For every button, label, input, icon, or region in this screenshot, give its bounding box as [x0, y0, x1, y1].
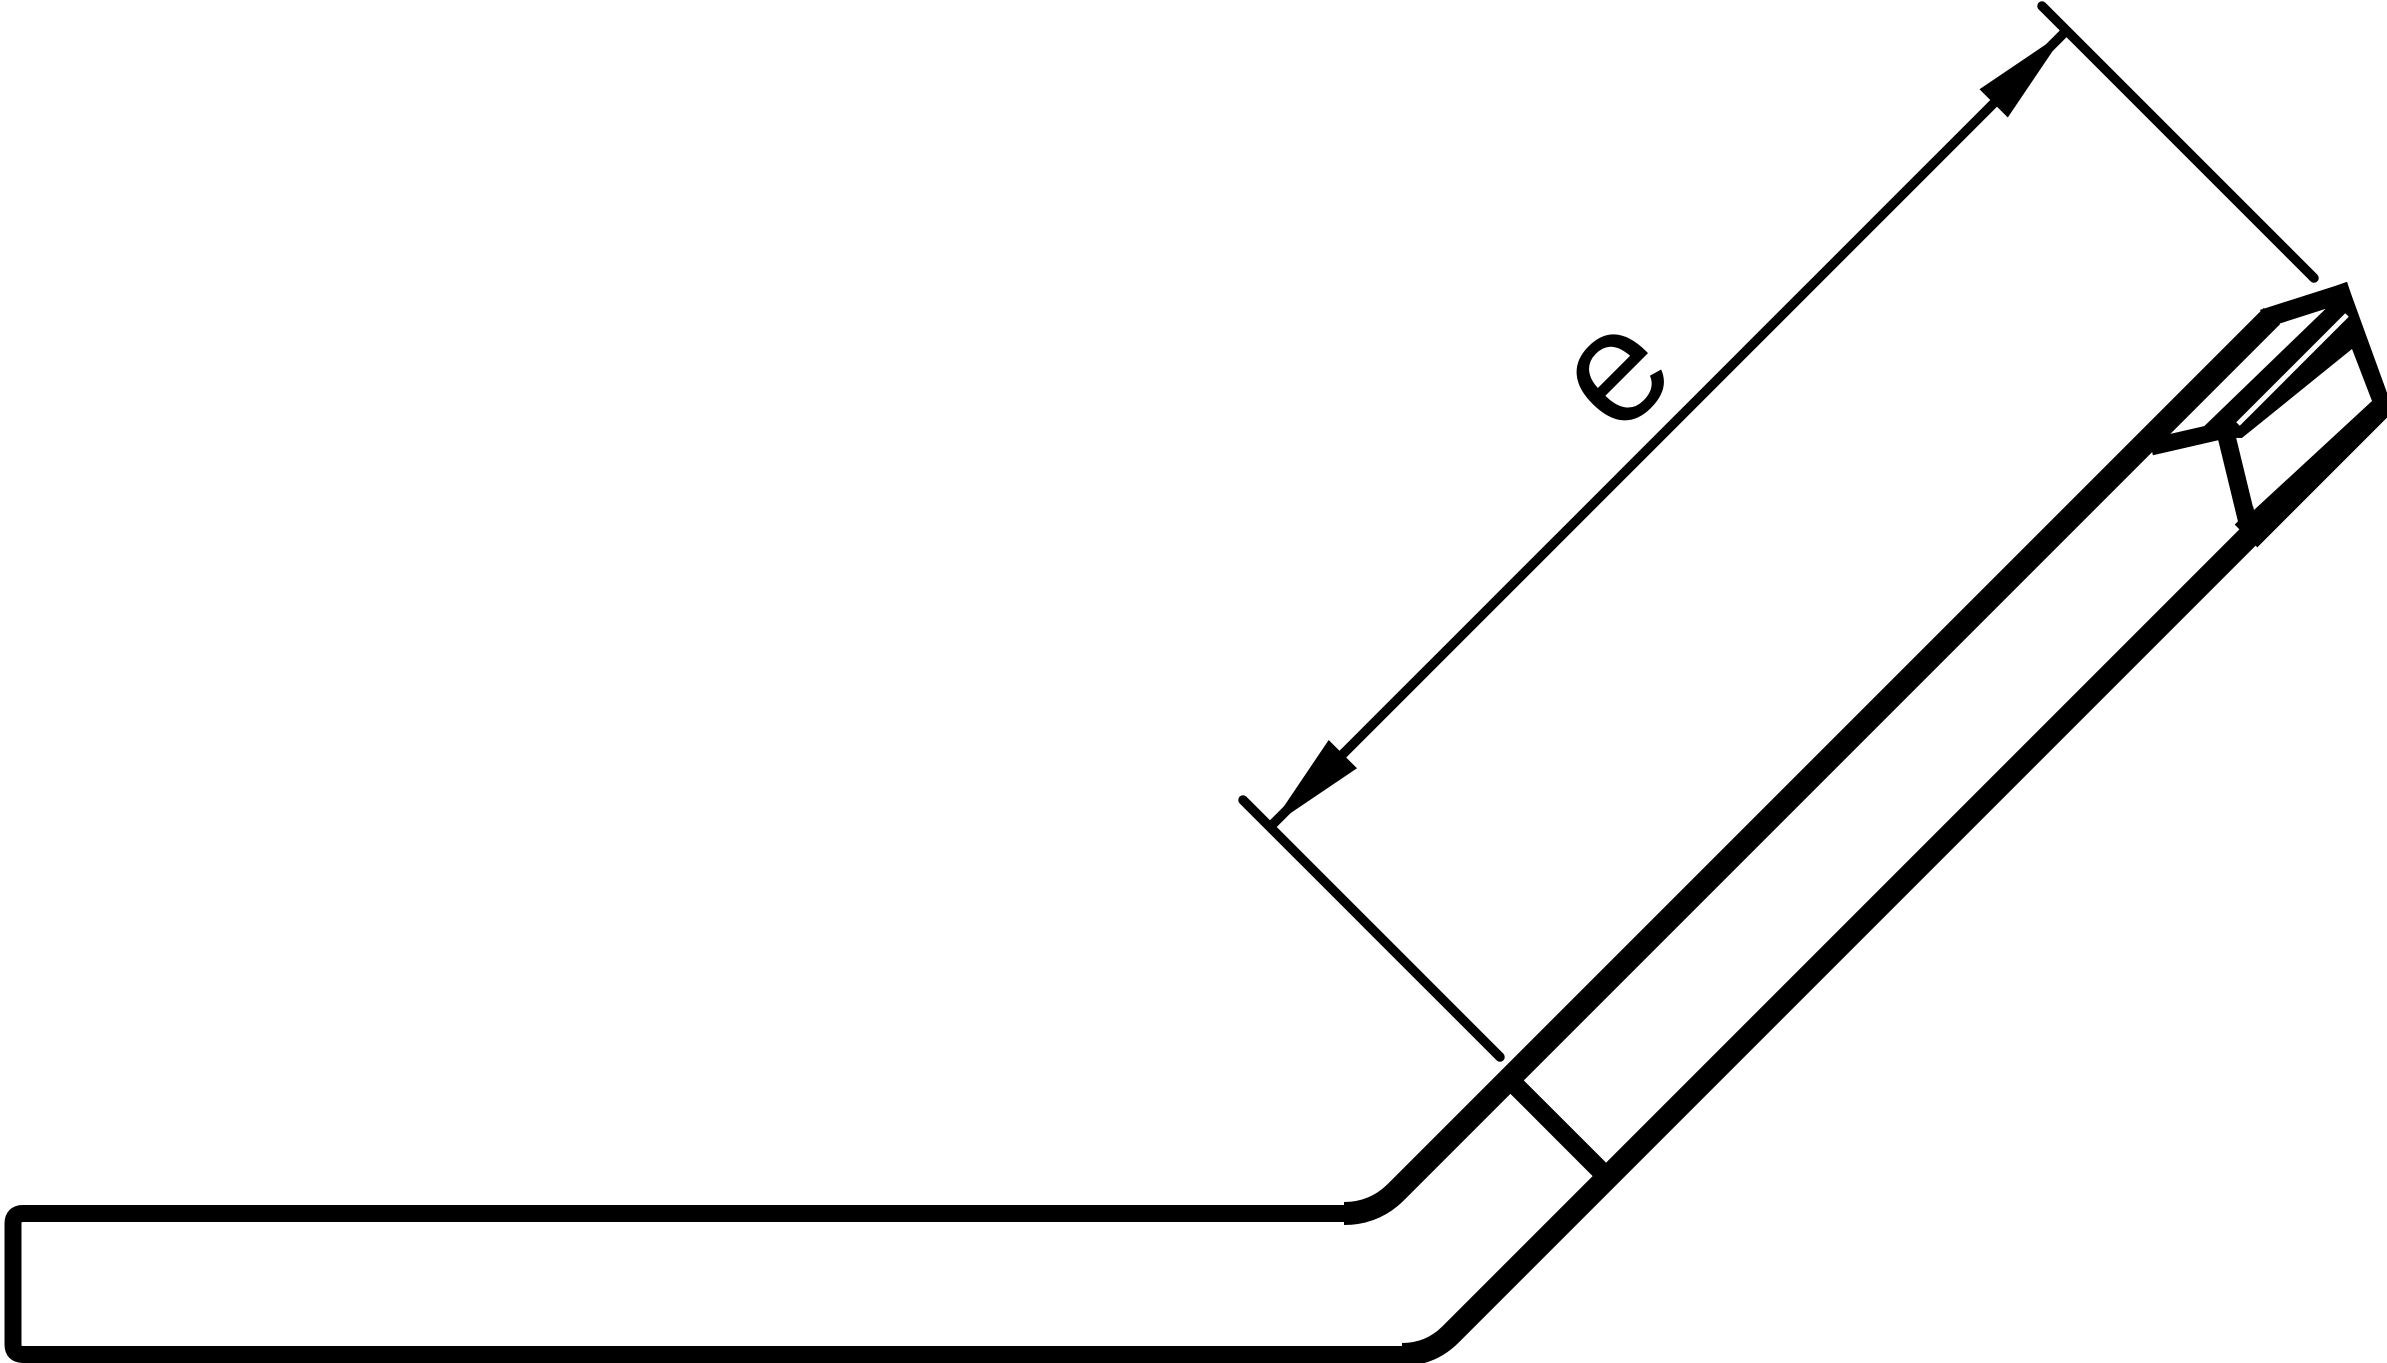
upper diagonal edge with bend (heavier stroke): [1344, 316, 2272, 1214]
dimension extension line lower: [1243, 800, 1500, 1057]
dimension line e: [1270, 31, 2067, 828]
tip right thickness edge B-C: [2341, 294, 2381, 404]
tip face lower long edge C-D (heavy): [2246, 404, 2378, 536]
dimension arrowhead lower: [1270, 740, 1357, 827]
tip side face interior (white window): [2237, 349, 2372, 510]
cut face band (end face seen edge-on): [2193, 294, 2360, 438]
face-to-shank short edge E-D: [2225, 430, 2251, 537]
lower diagonal edge with bend (heavier stroke): [1402, 404, 2381, 1355]
part silhouette interior fill: [13, 294, 2381, 1355]
cut face highlight (thin white edge line): [2238, 315, 2347, 424]
dimension arrowhead upper: [1980, 31, 2067, 118]
bend tangent line (thick tick across blade): [1509, 1079, 1608, 1178]
dimension extension line upper: [2042, 6, 2314, 278]
horizontal shank edges and left end cap: [13, 1214, 1412, 1355]
chamfer edge A-B at tip: [2272, 294, 2341, 316]
blade grind facet line P1-E (top face): [2151, 430, 2225, 447]
